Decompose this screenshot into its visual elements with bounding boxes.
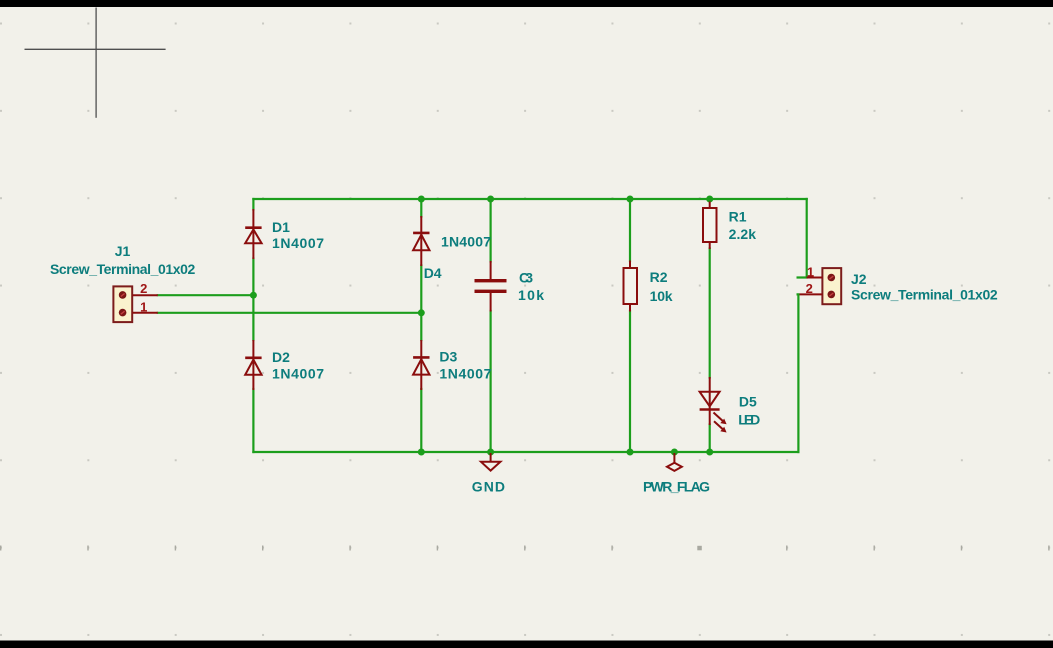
grid tick row (0, 546, 1050, 551)
wire J2 pin2 drop (796, 294, 799, 452)
wire D5 rail lower (709, 425, 711, 453)
resistor R1 (703, 202, 717, 250)
crosshair cursor (25, 8, 166, 118)
wire C3 rail upper (490, 199, 492, 262)
bottom black bar (0, 641, 1053, 648)
wire left rail lower (252, 389, 254, 452)
wire R2 rail lower (629, 311, 631, 452)
svg-text:1: 1 (140, 299, 147, 314)
junction C3 top (487, 196, 494, 203)
junction D5 bottom (706, 449, 713, 456)
wire R1 rail middle (709, 249, 711, 378)
junction D4 / J1 pin1 wire (418, 309, 425, 316)
svg-text:1N4007: 1N4007 (439, 365, 491, 381)
ground symbol GND (481, 453, 500, 471)
connector J2 (800, 268, 842, 304)
diode D1 (245, 209, 261, 259)
capacitor C3 (475, 279, 507, 293)
svg-text:D3: D3 (439, 348, 457, 364)
svg-text:GND: GND (472, 479, 505, 495)
wire J1 pin1 to D4 rail (158, 312, 422, 314)
wires (158, 199, 807, 452)
junction R2 top (627, 196, 634, 203)
svg-text:1N4007: 1N4007 (441, 233, 491, 249)
wire left rail middle (252, 259, 254, 341)
junction PWR_FLAG (671, 449, 678, 456)
svg-text:2: 2 (140, 281, 147, 296)
svg-text:J1: J1 (115, 243, 131, 259)
diode D3 (413, 340, 429, 390)
wire bottom rail (253, 451, 798, 453)
junction D3 bottom (418, 449, 425, 456)
svg-text:1: 1 (807, 265, 814, 280)
svg-text:10k: 10k (650, 288, 673, 304)
LED D5 (700, 377, 724, 430)
svg-text:1N4007: 1N4007 (272, 235, 324, 251)
wire J2 pin1 drop (798, 199, 807, 278)
diode D4 (413, 216, 429, 266)
wire R2 rail upper (629, 199, 631, 261)
junction dots (250, 196, 713, 456)
svg-text:J2: J2 (851, 271, 867, 287)
wire J1 pin2 to left rail (158, 294, 254, 296)
svg-text:2.2k: 2.2k (729, 226, 757, 242)
svg-text:1N4007: 1N4007 (272, 365, 324, 381)
connector J1 (113, 286, 157, 322)
junction R1 top (706, 196, 713, 203)
diode D2 (245, 340, 261, 390)
svg-text:Screw_Terminal_01x02: Screw_Terminal_01x02 (50, 261, 196, 277)
junction D4 top (418, 196, 425, 203)
svg-text:D4: D4 (424, 265, 442, 281)
wire C3 rail lower (490, 311, 492, 452)
svg-text:R2: R2 (650, 269, 668, 285)
resistor R2 (624, 261, 638, 312)
power flag PWR_FLAG (667, 453, 682, 471)
wire left rail upper (252, 199, 254, 210)
wire D4 rail middle (420, 266, 422, 341)
svg-text:C3: C3 (519, 270, 533, 286)
junction GND bottom (487, 449, 494, 456)
wire D3 rail lower (420, 389, 422, 452)
svg-text:D1: D1 (272, 219, 290, 235)
svg-text:2: 2 (806, 281, 813, 296)
svg-text:PWR_FLAG: PWR_FLAG (643, 478, 710, 494)
junction left rail / J1 pin2 (250, 292, 257, 299)
svg-text:10k: 10k (518, 287, 544, 303)
svg-text:LED: LED (738, 411, 760, 427)
wire top rail (253, 198, 806, 200)
svg-text:R1: R1 (729, 208, 747, 224)
junction R2 bottom (627, 449, 634, 456)
svg-text:D2: D2 (272, 349, 290, 365)
top black bar (0, 0, 1053, 7)
svg-text:D5: D5 (739, 393, 757, 409)
wire D4 rail upper (420, 199, 422, 217)
svg-text:Screw_Terminal_01x02: Screw_Terminal_01x02 (851, 287, 998, 303)
